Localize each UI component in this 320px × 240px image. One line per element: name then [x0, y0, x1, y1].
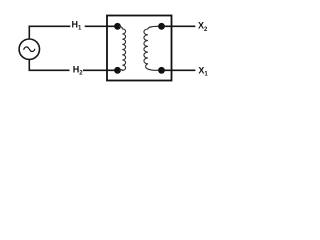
- wire: source bottom lead to H2: [29, 59, 69, 70]
- wire: source top lead to H1: [29, 26, 70, 39]
- primary winding L1: [119, 26, 126, 70]
- wire: X2 dot through box edge to label: [162, 25, 196, 27]
- wire: H2 to transformer box: [83, 69, 118, 71]
- node: secondary terminal X2 dot: [158, 23, 165, 30]
- node: primary terminal H1 dot: [114, 23, 121, 30]
- ac source V1: [19, 39, 39, 59]
- secondary winding L2: [144, 26, 160, 70]
- wire: X1 dot through box edge to label: [162, 69, 196, 71]
- node: primary terminal H2 dot: [114, 67, 121, 74]
- node: secondary terminal X1 dot: [158, 67, 165, 74]
- transformer enclosure box: [107, 16, 172, 81]
- wire: H1 to transformer box: [85, 25, 118, 27]
